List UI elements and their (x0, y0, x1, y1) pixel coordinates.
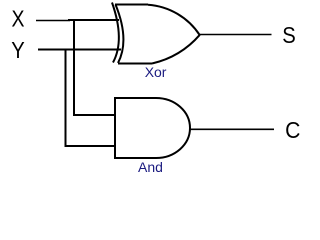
wire Y input horizontal (38, 49, 121, 51)
svg-text:And: And (138, 159, 163, 173)
xor-gate U1 input edge arc (116, 5, 124, 64)
wire X input horizontal thick segment to XOR (68, 19, 119, 21)
svg-text:C: C (285, 117, 300, 143)
xor-gate U1 bottom edge (118, 63, 152, 65)
wire X input horizontal (36, 20, 70, 22)
xor-gate U1 bottom output curve (152, 35, 200, 64)
xor-gate U1 top output curve (148, 5, 200, 36)
svg-text:Y: Y (11, 37, 24, 63)
wire Y branch vertical to AND (65, 49, 67, 146)
wire C output (190, 128, 274, 130)
wire S output (200, 34, 272, 36)
wire X branch vertical to AND (73, 20, 75, 116)
svg-text:Xor: Xor (145, 64, 167, 80)
xor-gate U1 top edge (115, 4, 148, 6)
wire Y branch horizontal into AND bottom input (65, 145, 115, 147)
svg-text:S: S (282, 22, 296, 48)
svg-text:X: X (12, 6, 25, 32)
wire X branch horizontal into AND top input (73, 114, 114, 116)
xor-gate U1 back arc (112, 3, 119, 63)
and-gate U2 body (115, 98, 190, 158)
